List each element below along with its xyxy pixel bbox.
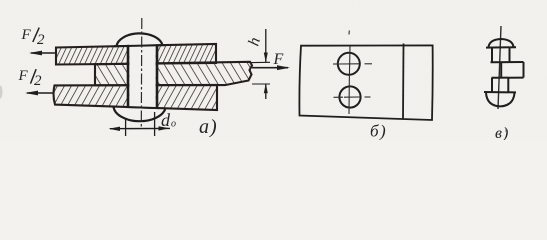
middle shank block (displaced) (501, 62, 523, 78)
rivet centerline (140, 18, 143, 128)
force label F/2 (top) (21, 27, 46, 48)
shear plane 2 (492, 77, 524, 79)
hole 2 (bottom) circle (339, 86, 360, 107)
rivet shank (white fill over hole) (129, 44, 155, 108)
upper cover plate (56, 44, 216, 65)
rivet shank right edge (156, 45, 159, 108)
middle plate (95, 62, 252, 86)
dimension h (plate thickness) (245, 29, 270, 99)
shear plane 1 (491, 61, 524, 63)
hole 1 crosshair (333, 31, 372, 83)
lower cover plate (54, 85, 217, 110)
rivet bottom head (114, 106, 166, 121)
top head dome (489, 39, 514, 47)
force arrow F/2 (bottom) (25, 91, 53, 96)
force arrow F (right) (252, 65, 290, 70)
hole 2 crosshair (334, 82, 371, 114)
upper shank segment (492, 48, 510, 62)
scan speck (505, 128, 507, 132)
scan smudge left edge (0, 86, 3, 99)
bottom head dome (486, 93, 515, 107)
centerline (498, 26, 501, 109)
force label F/2 (bottom) (18, 68, 43, 89)
rivet top head (117, 33, 163, 46)
force arrow F/2 (top) (29, 51, 57, 56)
plate outline (299, 45, 432, 120)
rivet shank left edge (127, 46, 130, 107)
plate surface line under bottom head (126, 107, 159, 108)
lower shank segment (492, 78, 508, 92)
plate surface line under top head (114, 45, 165, 46)
dimension d0 (rivet hole diameter) (109, 110, 177, 136)
hole 1 (top) circle (338, 53, 360, 75)
paper grain overlay (0, 0, 547, 140)
joint line (402, 44, 405, 120)
bottom head chord (484, 91, 516, 93)
top head chord (486, 46, 516, 48)
